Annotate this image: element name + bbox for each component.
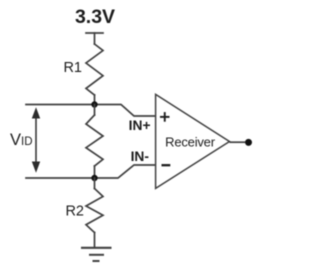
wire top rail IN+ <box>26 105 156 117</box>
node output dot <box>245 139 252 146</box>
op-amp U1 Receiver triangle <box>156 94 230 188</box>
wire R2 to ground <box>94 233 96 248</box>
resistor R1 <box>86 44 103 95</box>
svg-text:R2: R2 <box>65 204 84 220</box>
svg-text:VID: VID <box>10 131 33 149</box>
pin - symbol <box>162 164 171 166</box>
wire bottom rail IN- <box>26 165 156 178</box>
node A junction dot <box>91 101 97 107</box>
svg-text:3.3V: 3.3V <box>75 6 115 28</box>
svg-text:IN+: IN+ <box>129 118 151 133</box>
wire output <box>230 141 246 143</box>
wire 3.3V to R1 <box>94 33 96 44</box>
node B junction dot <box>91 175 97 181</box>
resistor RT middle termination <box>94 105 96 116</box>
VID measurement arrow <box>32 107 40 172</box>
svg-text:IN-: IN- <box>131 149 150 164</box>
power rail 3.3V bar <box>86 32 103 34</box>
wire R1 to node A <box>94 95 96 105</box>
resistor R2 <box>94 178 96 189</box>
svg-text:R1: R1 <box>63 60 82 76</box>
pin + symbol <box>160 112 170 122</box>
svg-text:Receiver: Receiver <box>165 135 216 150</box>
ground <box>81 248 112 261</box>
